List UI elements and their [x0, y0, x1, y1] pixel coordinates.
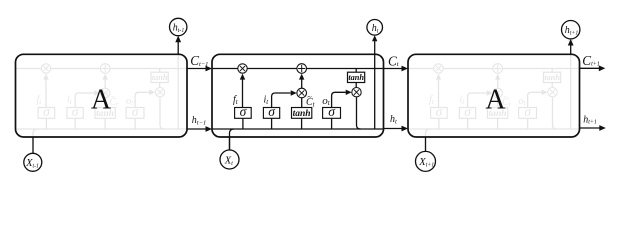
- svg-text:A: A: [485, 85, 506, 116]
- svg-text:A: A: [91, 85, 112, 116]
